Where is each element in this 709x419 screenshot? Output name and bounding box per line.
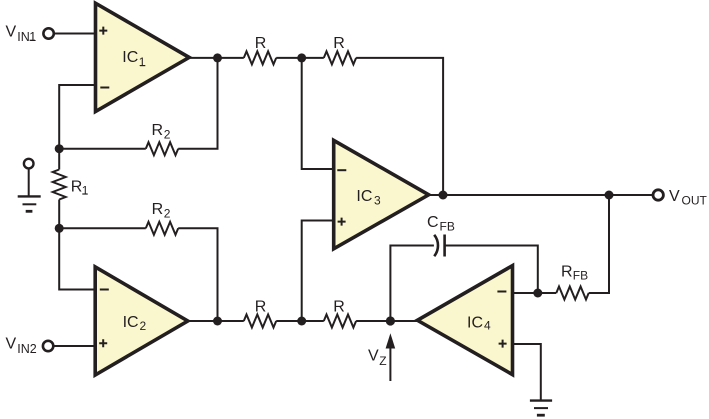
svg-text:R: R [561,264,573,281]
svg-text:1: 1 [139,55,146,69]
wire RFB to VOUT rail [589,195,609,293]
svg-text:V: V [6,24,17,41]
svg-text:2: 2 [164,127,171,141]
op-amp IC1 [96,3,190,111]
svg-text:4: 4 [484,319,491,333]
wire bottom middle node to IC3 + input [302,221,334,322]
terminal VOUT [653,190,663,200]
wire to top middle node [276,57,324,59]
resistor RFB [556,287,588,300]
wire CFB left branch [390,246,434,322]
svg-text:R: R [255,299,267,316]
resistor R2 (bottom) [146,222,178,235]
terminal VIN1 [43,28,53,38]
svg-text:C: C [427,214,439,231]
capacitor CFB [434,235,444,257]
op-amp IC3 [334,140,429,248]
wire R2a to IC1 output node [178,58,217,149]
svg-text:R: R [71,179,83,196]
svg-text:1: 1 [29,30,36,44]
svg-text:FB: FB [573,269,588,283]
wire VIN1 to IC1 + input [54,33,96,35]
wire top R to IC3 output node [356,58,443,195]
svg-text:IC: IC [123,314,139,331]
node B [55,224,64,233]
svg-text:IC: IC [122,49,138,66]
op-amp IC2 [95,267,188,375]
wire node B to R2b [59,227,146,229]
node IC3 output [439,191,448,200]
svg-text:R: R [152,201,164,218]
wire IC2 - input to node B [59,228,95,289]
node IC2 output [213,317,222,326]
svg-text:IN2: IN2 [17,342,37,356]
wire IC4 - input [513,292,538,294]
wire node A to R2a [59,148,146,150]
svg-text:IC: IC [356,188,372,205]
resistor R1 [53,149,66,229]
resistor R2 (top) [146,142,178,155]
wire VIN2 to IC2 + input [53,345,95,347]
svg-text:R: R [255,35,267,52]
resistor R (bottom left) [244,315,276,328]
node IC4 - input [533,289,542,298]
svg-text:R: R [333,35,345,52]
ground (bottom right) [530,401,552,416]
VZ arrow [389,346,391,381]
wire IC3 output to VOUT terminal [429,194,654,196]
node IC1 output [213,53,222,62]
svg-text:2: 2 [164,207,171,221]
node top middle [297,53,306,62]
svg-text:V: V [6,336,17,353]
node VOUT/RFB [605,191,614,200]
node A [55,144,64,153]
VZ arrowhead [386,333,396,348]
wire to bottom middle node [276,320,324,322]
grounded terminal (left) [18,169,41,212]
svg-text:3: 3 [374,194,381,208]
wire R2b to IC2 output node [178,228,217,321]
svg-text:OUT: OUT [682,193,708,207]
wire node to RFB [538,292,557,294]
svg-text:2: 2 [140,319,147,333]
op-amp IC4 [417,266,512,375]
svg-text:IC: IC [467,314,483,331]
terminal VIN2 [43,341,53,351]
node VZ [386,316,395,325]
svg-text:V: V [669,188,680,205]
node bottom middle [297,317,306,326]
svg-text:Z: Z [379,354,386,368]
resistor R (bottom right) [324,315,356,328]
resistor R (top right) [324,51,356,64]
svg-text:R: R [333,299,345,316]
wire IC2 output rail [188,320,244,322]
wire IC1 output rail [189,57,244,59]
svg-text:R: R [152,122,164,139]
resistor R (top left) [244,51,276,64]
grounded terminal circle [24,159,34,169]
wire top middle node to IC3 - input [302,58,334,169]
wire IC4 + input to ground [513,344,541,400]
wire IC1 - input to node A [59,85,95,149]
wire bottom R to IC4 output apex [356,320,418,322]
svg-text:V: V [368,348,379,365]
wire CFB right branch to IC4 - node [445,246,538,294]
svg-text:FB: FB [440,219,455,233]
svg-text:IN: IN [17,30,30,44]
svg-text:1: 1 [82,184,89,198]
